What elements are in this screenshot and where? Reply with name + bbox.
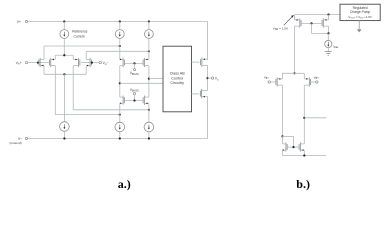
svg-text:Vo: Vo: [215, 77, 219, 82]
current source I7 (input NMOS tail bias): [60, 122, 70, 132]
node bottom-rail junction left column: [119, 137, 121, 139]
node M15 drain junction: [281, 135, 283, 137]
current source I6 Ibias (circuit b): [325, 40, 332, 47]
node Vbias1 gate junction: [133, 62, 135, 64]
wire current source to ground: [327, 48, 329, 52]
wire M11/M12 gate tie: [301, 22, 322, 24]
terminal Vin+ (circuit a): [16, 61, 28, 66]
wire tail down to M13 drain lead: [282, 73, 284, 79]
wire tail down to M14 drain lead: [303, 73, 305, 79]
node Vin+ gate junction: [37, 62, 39, 64]
transistor M1 (NMOS input, gate Vin+): [39, 58, 44, 67]
terminal Vin- (circuit a): [99, 61, 108, 66]
transistor M15 (NMOS mirror left, circuit b): [283, 142, 288, 151]
wire NMOS pair tail rail: [44, 73, 86, 75]
wire M15 drain down: [282, 136, 284, 144]
node left column to class-AB box tap: [119, 82, 121, 84]
wire class-AB box to output NMOS gate: [192, 93, 200, 95]
arrow charge pump output: [357, 29, 362, 32]
svg-text:Class AB: Class AB: [170, 72, 186, 76]
svg-text:Current: Current: [74, 34, 85, 38]
node diff pair tail junction: [293, 72, 295, 74]
transistor M8 (NMOS cascode right): [143, 96, 149, 105]
wire V+ rail to current source I2: [119, 22, 121, 30]
wire M15 source to ground rail: [282, 150, 284, 155]
node ground rail junction: [303, 154, 305, 156]
node top-rail junction for reference current source: [63, 20, 65, 22]
node M3 folded wire joins right column: [148, 109, 150, 111]
transistor M13 (PMOS diff left, circuit b): [276, 77, 283, 86]
transistor M4 (NMOS input, gate Vin-): [86, 58, 91, 67]
wire I4 to V- rail: [119, 132, 121, 139]
wire I7 to V- rail: [63, 131, 65, 138]
caption a.): [118, 177, 131, 191]
svg-text:VBIAS2: VBIAS2: [130, 88, 140, 93]
wire left column to class-AB control box: [120, 82, 163, 84]
wire reference current source to PMOS pair tail node: [63, 39, 65, 56]
wire M14 gate to VB+ terminal: [311, 81, 316, 83]
wire M5/M7 gate tie: [124, 62, 143, 64]
wire Vbias1 stub: [134, 63, 136, 68]
node PMOS tail centre junction: [63, 54, 65, 56]
label Vbias2: [130, 88, 140, 93]
wire M16 source to ground rail: [303, 150, 305, 155]
wire M1 source down to NMOS tail rail: [43, 66, 45, 75]
wire M7 drain down right column: [148, 66, 150, 98]
wire M6/M8 gate tie: [124, 100, 143, 102]
svg-text:VDD = 1.5V: VDD = 1.5V: [273, 26, 289, 31]
wire M9 drain down to output node: [207, 65, 209, 91]
svg-text:Vin+: Vin+: [16, 61, 22, 66]
wire M15/M16 gate tie: [287, 146, 299, 148]
node output junction: [206, 77, 208, 79]
svg-text:V+: V+: [17, 20, 21, 24]
terminal V+ (positive supply, circuit a): [17, 20, 28, 24]
wire V+ rail to reference current source: [63, 22, 65, 30]
node M12 drain / bias junction: [327, 32, 329, 34]
node Vbias2 gate junction: [133, 99, 135, 101]
wire class-AB box to output PMOS gate: [192, 61, 200, 63]
node bottom mirror gate junction: [292, 146, 294, 148]
svg-text:Control: Control: [171, 76, 183, 80]
wire M14 source down right column: [303, 85, 305, 144]
wire top-rail corner down to output PMOS source: [207, 22, 209, 61]
label VDD = 1.5V with arrow (circuit b): [273, 15, 294, 31]
wire ground rail (circuit b): [283, 155, 327, 157]
svg-text:a.): a.): [118, 177, 131, 191]
wire I2 to PMOS cascode M5 source: [119, 39, 121, 60]
ground symbol (circuit b): [325, 52, 332, 56]
wire right column to class-AB control box: [149, 78, 163, 80]
node NMOS tail centre junction: [63, 73, 65, 75]
svg-text:b.): b.): [296, 177, 310, 191]
wire M15 diode connection horizontal: [283, 135, 294, 137]
node bottom-rail junction tail current source: [63, 137, 65, 139]
transistor M6 (NMOS cascode left): [120, 96, 125, 105]
svg-text:VBIAS1: VBIAS1: [130, 71, 140, 76]
wire M8 source down to current source I5: [148, 103, 150, 122]
wire Vin+ terminal to input gates: [28, 62, 50, 64]
node folded node A joins left cascode column: [119, 45, 121, 47]
transistor M7 (PMOS cascode right): [143, 58, 149, 67]
wire output node to Vo terminal: [208, 77, 212, 79]
node bottom-rail junction right column: [148, 137, 150, 139]
wire diff pair tail spread: [283, 72, 305, 74]
wire PMOS pair tail bridge: [55, 54, 73, 56]
terminal Vbias1: [133, 69, 135, 71]
block Class AB Control Circuitry: [163, 46, 192, 112]
wire NMOS tail down to bottom current source: [63, 74, 65, 122]
node folded node B joins right cascode column: [148, 50, 150, 52]
wire M13 source down long left column: [282, 85, 284, 136]
node top-rail junction left cascode: [119, 20, 121, 22]
transistor M14 (PMOS diff right, circuit b): [304, 77, 310, 86]
wire rail down to mirror PMOS M11 source: [294, 15, 296, 20]
wire output tap to the right: [304, 117, 326, 119]
terminal V- (ground, circuit a): [10, 137, 28, 145]
current source I4 (left bottom): [115, 122, 125, 132]
block Regulated Charge Pump: [340, 4, 380, 20]
wire M6 source down to current source I4: [119, 103, 121, 122]
svg-text:(Ground): (Ground): [10, 141, 22, 145]
terminal Vo output: [211, 77, 219, 82]
svg-text:VB−: VB−: [264, 75, 270, 80]
transistor M11 (PMOS mirror left, circuit b): [295, 18, 302, 27]
transistor M3 (PMOS input, gate Vin-): [73, 58, 80, 67]
transistor M2 (PMOS input, gate Vin+): [50, 58, 56, 67]
wire rail down to mirror PMOS M12 source: [328, 15, 330, 20]
terminal Vbias2: [133, 93, 135, 95]
transistor M16 (NMOS mirror right, circuit b): [299, 142, 304, 151]
wire charge pump output arrow stem: [358, 21, 360, 30]
wire bottom supply rail V- (circuit a): [28, 138, 208, 140]
caption b.): [296, 177, 310, 191]
label Vbias1: [130, 71, 140, 76]
wire M2 source up to PMOS tail bridge: [54, 55, 56, 59]
node top-rail junction right mirror: [327, 13, 329, 15]
label Ibias: [333, 44, 339, 49]
wire M2 drain folded wire to left cascode column: [55, 114, 120, 116]
wire top rail (circuit b): [295, 14, 341, 16]
wire top supply rail V+ (circuit a): [28, 21, 208, 23]
node mirror gate junction: [310, 22, 312, 24]
node right column to class-AB box tap: [148, 78, 150, 80]
wire M2 drain down to lower folded wire: [54, 66, 56, 115]
transistor M9 (PMOS output): [201, 58, 208, 67]
wire M11 drain down to diff pair tail: [294, 26, 296, 73]
wire M4 source down to NMOS tail rail: [85, 66, 87, 75]
wire gate node to M12 drain (diode connection): [312, 32, 329, 34]
wire M15 diode connection vertical: [293, 136, 295, 147]
current source I2 (left cascode bias): [115, 30, 124, 39]
transistor M10 (NMOS output): [200, 89, 207, 98]
wire VB- terminal to M13 gate: [270, 81, 276, 83]
wire bottom-rail corner up to output NMOS source: [207, 96, 209, 138]
wire M4 drain up to folded node wire: [85, 51, 87, 59]
wire gate node down: [311, 23, 313, 33]
svg-text:Circuitry: Circuitry: [170, 81, 184, 85]
wire M3 drain down to lower folded wire: [72, 66, 74, 110]
node top-rail junction right cascode: [148, 20, 150, 22]
wire folded node A (y=46) to left cascode column: [44, 45, 120, 47]
wire folded node B (y=51.3) to right cascode column: [86, 50, 149, 52]
svg-text:VB+: VB+: [314, 75, 320, 80]
current source I3 (right cascode bias): [145, 30, 154, 39]
svg-text:Charge Pump: Charge Pump: [350, 10, 371, 14]
node M2 folded wire joins left column: [119, 114, 121, 116]
wire M3 source up to PMOS tail bridge: [72, 55, 74, 59]
wire I5 to V- rail: [148, 132, 150, 139]
wire M1 drain up to folded node wire: [43, 46, 45, 59]
wire M3/M4 gate wire to Vin- terminal: [81, 62, 99, 64]
terminal VB+ gate input: [314, 75, 320, 83]
transistor M5 (PMOS cascode left): [120, 58, 125, 67]
wire M5 drain down left column: [119, 66, 121, 98]
wire Vbias2 stub: [134, 95, 136, 101]
svg-text:Reference: Reference: [72, 29, 87, 33]
wire M12 drain down to gate tie node: [328, 26, 330, 33]
current source I5 (right bottom): [144, 122, 154, 132]
wire I3 to PMOS cascode M7 source: [148, 39, 150, 60]
wire bias node to current source: [327, 33, 329, 40]
terminal VB- gate input: [264, 75, 271, 83]
node output tap junction (circuit b): [303, 117, 305, 119]
wire M3 drain folded wire to right cascode column: [73, 109, 149, 111]
label Reference Current: [72, 29, 87, 38]
wire V+ rail to current source I3: [148, 22, 150, 30]
current source I1 Reference Current: [60, 30, 69, 39]
svg-text:Ibias: Ibias: [333, 44, 339, 49]
svg-text:Vin−: Vin−: [103, 61, 109, 66]
transistor M12 (PMOS mirror right, diode connected): [322, 18, 328, 27]
node Vin- gate junction: [91, 62, 93, 64]
